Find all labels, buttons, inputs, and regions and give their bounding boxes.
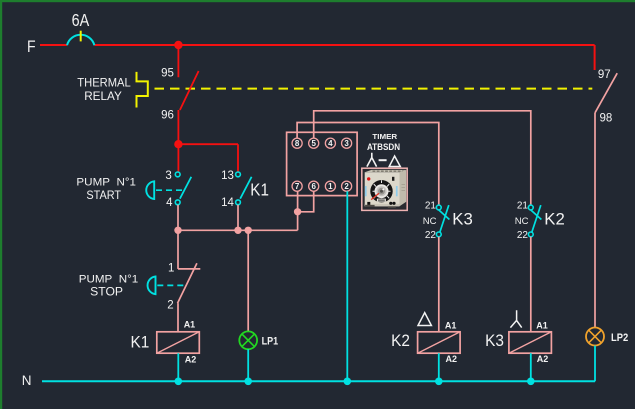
wire pink K2NC to K3 coil [530, 237, 532, 332]
timer photo U1 [362, 168, 407, 210]
svg-text:4: 4 [328, 139, 333, 148]
contact 97-98 slant pink [595, 73, 617, 113]
actuator dashed START [156, 189, 184, 191]
contact K1 13-14 [236, 172, 241, 177]
svg-text:14: 14 [221, 197, 234, 209]
svg-text:K1: K1 [250, 180, 269, 200]
svg-text:22: 22 [517, 230, 529, 241]
star symbol K3 [510, 310, 521, 327]
wire pink from 14 down [237, 205, 239, 231]
wire pink down to LP2 [594, 113, 596, 328]
wire N rail cyan [42, 380, 595, 382]
border top [0, 0, 635, 2]
wire pink horizontal bus y230 [178, 229, 298, 231]
wire pink K3NC to K2 coil [438, 237, 440, 332]
wire pink terminal 8 to K3 NC [297, 123, 439, 206]
fuse F1 6A arc [67, 35, 94, 45]
terminal 7 [292, 181, 302, 191]
svg-text:K3: K3 [452, 210, 473, 229]
svg-text:8: 8 [295, 139, 300, 148]
svg-text:5: 5 [311, 139, 316, 148]
svg-text:3: 3 [344, 139, 349, 148]
svg-text:A2: A2 [537, 354, 549, 364]
svg-text:K2: K2 [544, 210, 565, 229]
svg-text:K2: K2 [391, 331, 410, 350]
svg-text:6A: 6A [72, 10, 90, 30]
svg-text:PUMP N°1: PUMP N°1 [79, 273, 139, 285]
wire cyan K2 A2 to N [438, 353, 440, 381]
wire cyan K3 A2 to N [530, 353, 532, 381]
star-dash-delta symbol [367, 153, 377, 167]
svg-text:START: START [86, 190, 121, 202]
contact K2 NC 21-22 [528, 205, 541, 237]
svg-text:98: 98 [600, 112, 613, 124]
svg-text:1: 1 [328, 182, 333, 191]
svg-text:3: 3 [165, 170, 171, 182]
push button STOP cyan [148, 277, 156, 295]
wire cyan K1 A2 to N [177, 353, 179, 381]
thermal relay symbol yellow bracket [137, 72, 148, 108]
junction red top at x178 [174, 41, 182, 49]
svg-text:K1: K1 [131, 332, 150, 351]
border left [0, 0, 2, 409]
svg-text:97: 97 [598, 69, 611, 81]
svg-text:1: 1 [168, 262, 174, 274]
wire pink LP1 feed down [247, 230, 249, 331]
contact START 3-4 [175, 172, 180, 177]
svg-text:A1: A1 [445, 320, 457, 330]
wire pink from 4 down to bus [177, 205, 179, 269]
svg-text:22: 22 [425, 230, 437, 241]
svg-text:NC: NC [515, 216, 529, 227]
svg-text:PUMP N°1: PUMP N°1 [76, 177, 136, 189]
coil K1 [157, 332, 200, 353]
lamp LP2 orange [586, 328, 604, 346]
wire red L to contact 13 [178, 144, 238, 172]
terminal 3 [342, 138, 352, 148]
push button START cyan [146, 181, 154, 199]
timer terminal block rect [287, 132, 358, 195]
lamp LP1 green [239, 331, 257, 349]
svg-text:ATBSDN: ATBSDN [367, 142, 400, 152]
svg-text:N: N [22, 373, 32, 388]
wire pink terminal 5 to K2 NC [314, 111, 531, 205]
contact K3 NC 21-22 [436, 205, 449, 237]
terminal 8 [292, 138, 302, 148]
svg-text:7: 7 [295, 182, 300, 191]
junction pink dots on bus [174, 227, 181, 234]
terminal 2 [342, 181, 352, 191]
wire F rail red top [40, 45, 595, 70]
svg-text:F: F [27, 37, 36, 56]
svg-text:95: 95 [161, 67, 174, 79]
svg-text:THERMAL: THERMAL [77, 75, 131, 89]
coil K3 [509, 332, 552, 353]
terminal 1 [325, 181, 335, 191]
terminal 5 [309, 138, 319, 148]
junction cyan dots on N [175, 378, 183, 386]
junction pink at 297,211 [294, 208, 301, 215]
wire cyan LP1 to N [247, 349, 249, 381]
svg-text:NC: NC [423, 216, 437, 227]
delta symbol K2 [418, 313, 431, 326]
svg-text:A1: A1 [536, 320, 548, 330]
terminal 6 [309, 181, 319, 191]
junction red at 178,144 [174, 140, 182, 148]
svg-text:A2: A2 [185, 354, 197, 364]
svg-text:6: 6 [311, 182, 316, 191]
svg-text:13: 13 [221, 170, 234, 182]
svg-text:96: 96 [161, 109, 174, 121]
svg-text:A2: A2 [446, 354, 458, 364]
wire cyan terminal 2 down to N [346, 191, 348, 381]
svg-text:TIMER: TIMER [372, 132, 397, 141]
svg-text:LP1: LP1 [262, 335, 279, 347]
terminal 4 [325, 138, 335, 148]
svg-text:K3: K3 [485, 331, 504, 350]
coil K2 [418, 332, 461, 353]
svg-text:STOP: STOP [90, 286, 123, 298]
wire cyan LP2 to N corner [594, 346, 596, 382]
contact STOP 1-2 pink NC [178, 263, 201, 332]
svg-text:A1: A1 [184, 320, 196, 330]
wire pink from terminals 7,6 [298, 191, 314, 230]
svg-text:21: 21 [425, 201, 437, 212]
svg-text:2: 2 [167, 299, 173, 311]
svg-text:RELAY: RELAY [84, 89, 122, 103]
svg-text:4: 4 [166, 197, 173, 209]
actuator dashed STOP [157, 284, 184, 286]
thermal contact 95-96 red [178, 45, 198, 144]
svg-text:21: 21 [517, 201, 529, 212]
svg-text:LP2: LP2 [611, 332, 628, 344]
fuse tick yellow [80, 31, 82, 42]
svg-text:2: 2 [344, 182, 349, 191]
thermal relay trip dashed line yellow [155, 88, 593, 90]
